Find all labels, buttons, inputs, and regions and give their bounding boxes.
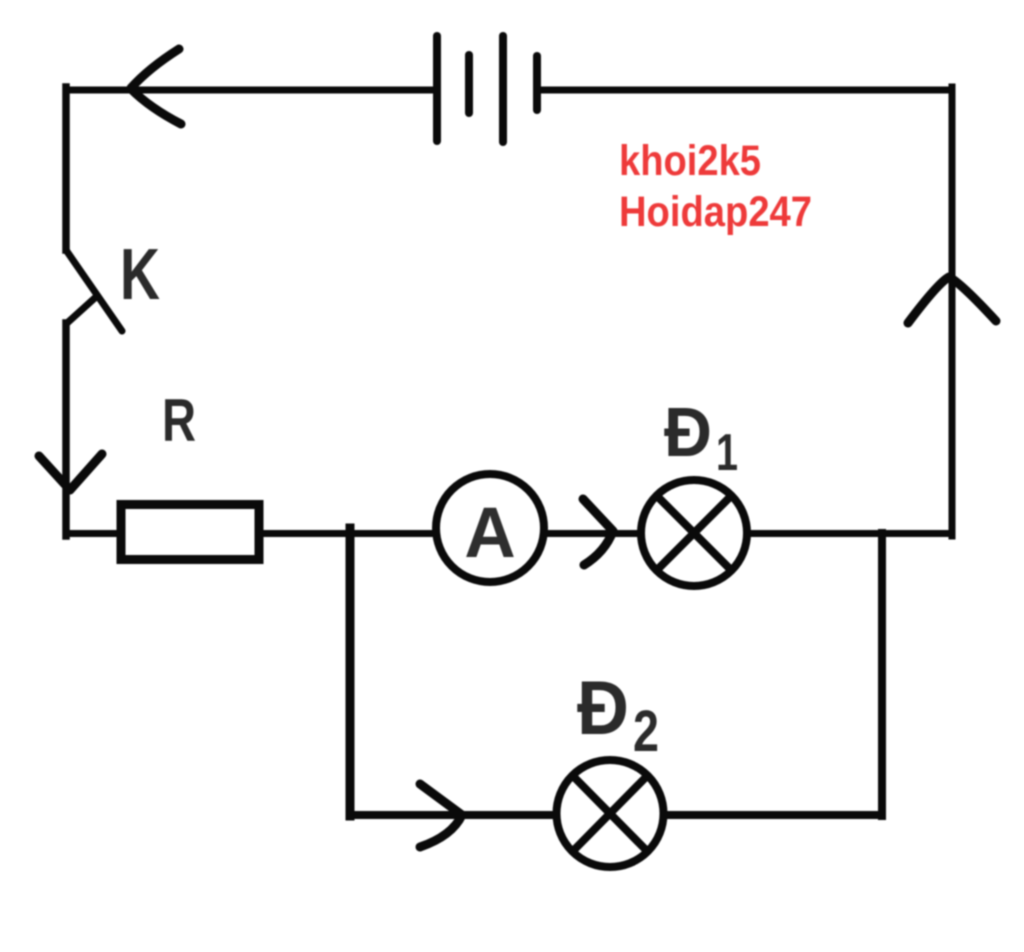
svg-text:1: 1 — [716, 424, 738, 482]
svg-text:Đ: Đ — [577, 666, 629, 751]
svg-text:khoi2k5: khoi2k5 — [619, 137, 761, 185]
svg-text:Hoidap247: Hoidap247 — [619, 188, 812, 236]
svg-text:K: K — [120, 235, 160, 315]
svg-text:R: R — [162, 387, 196, 454]
svg-text:Đ: Đ — [664, 393, 712, 471]
svg-text:2: 2 — [633, 699, 659, 764]
svg-text:A: A — [464, 494, 515, 573]
